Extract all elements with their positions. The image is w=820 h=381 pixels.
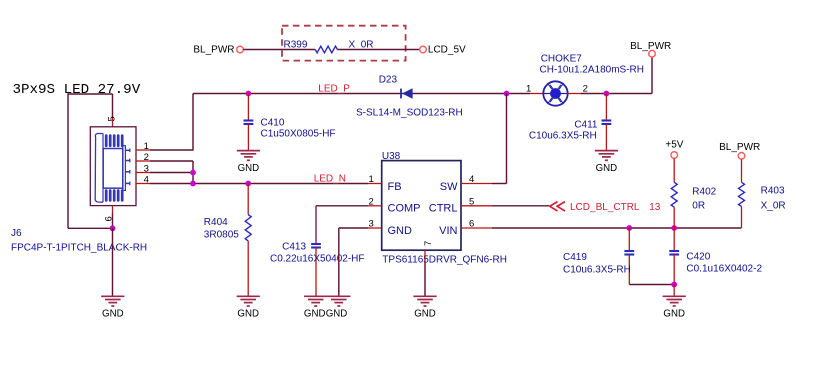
wire to ground xyxy=(673,285,675,297)
wire pin7 to ground xyxy=(424,262,426,296)
resistor R402 xyxy=(673,158,675,182)
connector J6 inner drawing xyxy=(95,134,130,203)
svg-text:C10u6.3X5-RH: C10u6.3X5-RH xyxy=(563,264,631,275)
node SW junction xyxy=(504,91,510,97)
wire choke to riser xyxy=(568,93,582,95)
svg-text:5: 5 xyxy=(469,196,474,207)
svg-text:GND: GND xyxy=(414,309,436,320)
svg-text:6: 6 xyxy=(103,216,114,221)
svg-text:1: 1 xyxy=(144,141,149,152)
svg-text:7: 7 xyxy=(423,241,434,246)
wire pin1 to LED_P xyxy=(150,149,193,151)
svg-text:C411: C411 xyxy=(574,120,598,131)
svg-text:LED_P: LED_P xyxy=(318,84,350,95)
svg-text:R403: R403 xyxy=(761,186,785,197)
wire CTRL xyxy=(492,205,549,207)
svg-text:3Px9S LED 27.9V: 3Px9S LED 27.9V xyxy=(13,82,141,98)
svg-text:X_0R: X_0R xyxy=(349,39,374,50)
svg-text:BL_PWR: BL_PWR xyxy=(719,142,760,153)
svg-text:CH-10u1.2A180mS-RH: CH-10u1.2A180mS-RH xyxy=(540,65,645,76)
svg-text:GND: GND xyxy=(596,163,618,174)
svg-text:GND: GND xyxy=(238,163,260,174)
svg-text:C1u50X0805-HF: C1u50X0805-HF xyxy=(261,129,336,140)
svg-text:3R0805: 3R0805 xyxy=(204,229,239,240)
U38 pin 4 stub xyxy=(461,183,492,185)
capacitor C420 xyxy=(673,228,675,251)
ground U38 pin3 xyxy=(327,295,350,297)
pin 4 stub xyxy=(136,183,150,185)
node C411 junction xyxy=(604,91,610,97)
svg-text:GND: GND xyxy=(326,309,348,320)
svg-text:FB: FB xyxy=(388,181,402,193)
dashed no-stuff box xyxy=(282,26,406,61)
resistor R404 xyxy=(247,184,249,215)
resistor R399 xyxy=(315,46,337,53)
svg-text:3: 3 xyxy=(144,163,149,174)
svg-text:J6: J6 xyxy=(11,228,22,239)
svg-text:D23: D23 xyxy=(379,74,398,85)
ground C413 xyxy=(304,295,327,297)
node gnd junction xyxy=(671,282,677,288)
svg-text:GND: GND xyxy=(304,309,326,320)
U38 pin 5 stub xyxy=(461,205,492,207)
svg-text:C0.22u16X50402-HF: C0.22u16X50402-HF xyxy=(270,254,365,265)
svg-text:+5V: +5V xyxy=(665,140,683,151)
svg-text:5: 5 xyxy=(107,116,118,121)
wire pin3 xyxy=(150,172,193,174)
wire R399 to LCD_5V xyxy=(337,49,419,51)
svg-text:COMP: COMP xyxy=(388,202,421,214)
U38 pin 2 stub xyxy=(368,205,382,207)
svg-text:2: 2 xyxy=(369,196,374,207)
node J6 gnd junction xyxy=(110,225,116,231)
svg-text:BL_PWR: BL_PWR xyxy=(193,45,234,56)
svg-text:4: 4 xyxy=(469,174,474,185)
capacitor C410 xyxy=(247,94,249,121)
svg-text:GND: GND xyxy=(388,225,413,237)
pin 6 stub xyxy=(112,206,114,214)
port BL_PWR choke xyxy=(649,50,656,57)
node C410 junction xyxy=(246,91,252,97)
wire BL_PWR to R399 xyxy=(243,49,315,51)
svg-text:LCD_BL_CTRL: LCD_BL_CTRL xyxy=(570,202,640,213)
pin 5 stub xyxy=(112,94,114,118)
svg-text:VIN: VIN xyxy=(439,225,457,237)
connector J6 body xyxy=(90,127,136,206)
ground pin7 xyxy=(413,295,436,297)
wire VIN xyxy=(492,227,741,229)
svg-text:R399: R399 xyxy=(284,39,308,50)
svg-text:SW: SW xyxy=(440,181,458,193)
capacitor C411 xyxy=(605,94,607,121)
svg-text:2: 2 xyxy=(144,152,149,163)
U38 pin 6 stub xyxy=(461,227,492,229)
node pin3 junction xyxy=(190,170,196,176)
svg-text:LED_N: LED_N xyxy=(314,174,346,185)
off-page chevron LCD_BL_CTRL xyxy=(550,202,558,211)
capacitor C419 xyxy=(628,228,630,251)
svg-text:13: 13 xyxy=(649,202,661,213)
pin 2 stub xyxy=(136,160,150,162)
svg-text:BL_PWR: BL_PWR xyxy=(630,41,671,52)
wire U38 GND pin xyxy=(339,227,368,229)
svg-text:C410: C410 xyxy=(261,117,285,128)
svg-text:GND: GND xyxy=(237,309,259,320)
node C419 junction xyxy=(626,225,632,231)
pin 1 stub xyxy=(136,149,150,151)
node R402 junction xyxy=(671,225,677,231)
port LCD_5V xyxy=(420,46,427,53)
U38 pin 3 stub xyxy=(368,227,382,229)
svg-text:GND: GND xyxy=(102,309,124,320)
svg-text:FPC4P-T-1PITCH_BLACK-RH: FPC4P-T-1PITCH_BLACK-RH xyxy=(11,242,147,253)
svg-text:6: 6 xyxy=(469,219,474,230)
svg-text:CHOKE7: CHOKE7 xyxy=(541,53,583,64)
U38 pin 7 stub xyxy=(424,250,426,262)
svg-text:C10u6.3X5-RH: C10u6.3X5-RH xyxy=(529,130,597,141)
svg-text:X_0R: X_0R xyxy=(761,201,786,212)
svg-text:U38: U38 xyxy=(382,151,401,162)
svg-text:LCD_5V: LCD_5V xyxy=(428,45,466,56)
svg-text:3: 3 xyxy=(369,219,374,230)
svg-text:R404: R404 xyxy=(204,217,228,228)
wire C419 to C420 gnd xyxy=(629,284,674,286)
svg-text:0R: 0R xyxy=(692,201,705,212)
ground C411 xyxy=(595,150,618,152)
wire LED_P rail xyxy=(193,93,530,95)
svg-text:S-SL14-M_SOD123-RH: S-SL14-M_SOD123-RH xyxy=(356,108,463,119)
svg-text:GND: GND xyxy=(663,309,685,320)
ground R404 xyxy=(237,295,260,297)
svg-text:CTRL: CTRL xyxy=(429,202,458,214)
ground C410 xyxy=(237,150,260,152)
ground J6 xyxy=(101,295,124,297)
wire pin5 loop xyxy=(68,93,113,95)
svg-text:C419: C419 xyxy=(563,252,587,263)
wire pin2 riser xyxy=(150,160,193,162)
node pin4 junction xyxy=(190,181,196,187)
wire pin4 LED_N xyxy=(150,183,368,185)
resistor R403 xyxy=(741,159,743,182)
svg-text:C420: C420 xyxy=(686,252,710,263)
svg-text:C413: C413 xyxy=(282,242,306,253)
svg-text:4: 4 xyxy=(144,174,149,185)
svg-text:1: 1 xyxy=(369,174,374,185)
node R404 junction xyxy=(245,181,251,187)
U38 pin 1 stub xyxy=(368,183,382,185)
svg-text:1: 1 xyxy=(526,84,531,95)
wire J6 to ground xyxy=(112,228,114,296)
wire SW to LED_P xyxy=(492,183,507,185)
svg-text:C0.1u16X0402-2: C0.1u16X0402-2 xyxy=(686,264,762,275)
capacitor C413 xyxy=(315,241,317,244)
ground C419 C420 xyxy=(663,295,686,297)
pin 3 stub xyxy=(136,172,150,174)
wire riser to BL_PWR xyxy=(651,57,653,94)
svg-text:TPS61165DRVR_QFN6-RH: TPS61165DRVR_QFN6-RH xyxy=(382,255,507,266)
svg-text:R402: R402 xyxy=(692,186,716,197)
IC U38 TPS61165 box xyxy=(382,161,461,251)
wire COMP xyxy=(316,205,368,207)
